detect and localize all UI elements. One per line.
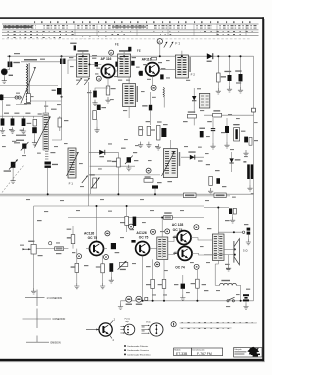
capacitor C26 + resistor	[244, 137, 248, 143]
capacitor C7 on rail	[60, 59, 62, 65]
main supply rail wire (top, y=56)	[7, 55, 254, 57]
resistor R4 (emitter)	[106, 86, 110, 95]
ground (input)	[2, 78, 7, 84]
label above choke	[221, 280, 230, 281]
trimmer resistor R2	[33, 119, 37, 126]
title box maker with logo	[234, 348, 262, 357]
ground R10	[146, 142, 151, 148]
capacitor C1 (electrolytic, input)	[8, 62, 10, 68]
label above antenna coil	[24, 59, 37, 61]
pinout leads top/bottom	[110, 320, 114, 324]
capacitor C31	[133, 217, 137, 226]
ground gang	[11, 178, 16, 184]
IF transformer F1 can (ratio detector primary)	[68, 148, 76, 178]
ground at bus left end	[120, 301, 122, 304]
ground C5	[21, 128, 26, 134]
capacitor C14	[93, 91, 97, 98]
wires T6/T7 collectors to TR2	[191, 238, 212, 240]
vertical label right of F2	[189, 57, 190, 72]
RF choke below T2	[163, 87, 164, 97]
IF transformer F3 can	[163, 149, 177, 178]
ground R5	[94, 127, 99, 133]
ground C4	[10, 127, 15, 133]
bus: audio line extension to jack	[204, 207, 229, 209]
label above R17	[164, 212, 171, 213]
vertical label right of F3	[179, 152, 180, 166]
resistor R26	[151, 279, 155, 288]
ground under C26	[243, 150, 248, 156]
svg-text:OC 75: OC 75	[139, 236, 149, 240]
wire base to can A	[89, 60, 101, 64]
svg-text:OC 74: OC 74	[175, 266, 185, 270]
electrolytic C25 (boxed)	[234, 128, 240, 141]
tuning arrow can A right winding	[84, 78, 89, 85]
speaker junction dots	[234, 248, 236, 250]
border frame: bottom border shadow	[0, 360, 265, 363]
title box model	[174, 348, 192, 356]
bus: AGC double line y=194/195.7	[0, 193, 254, 195]
trimmer arrows near F1 top	[164, 42, 167, 48]
svg-text:5 Ω: 5 Ω	[243, 249, 247, 253]
svg-text:Condensador Electrolitico: Condensador Electrolitico	[127, 353, 152, 356]
wiper to R20	[36, 248, 54, 250]
label C1	[13, 62, 20, 63]
switch position line 3 horizontal	[26, 341, 49, 343]
resistor R10b	[157, 125, 160, 140]
wire F2 top to rail	[181, 51, 183, 55]
tuning arrow F1	[67, 152, 79, 176]
label T6	[173, 237, 176, 238]
alignment table: light text row 2	[3, 30, 73, 32]
wire R5	[96, 120, 98, 127]
terminal square on right bus	[252, 108, 256, 112]
legend bullet 3	[124, 354, 126, 356]
junction dot base	[88, 63, 90, 65]
value labels (additional annotations)	[2, 55, 258, 307]
plus label C27	[243, 161, 246, 162]
alignment table: upper tick text above row1	[30, 20, 255, 23]
capacitor C23 (ceramic)	[211, 129, 215, 131]
wire can A to left	[68, 60, 76, 74]
wire emitter net	[95, 88, 108, 91]
label above can A	[78, 50, 89, 52]
capacitor C22	[239, 74, 243, 81]
capacitor C11 (collector)	[115, 62, 119, 67]
capacitor C18	[161, 128, 166, 137]
bus resistor R15	[214, 193, 226, 198]
capacitor C9 (base)	[95, 62, 98, 67]
small resistor near C15	[151, 57, 156, 60]
junction blob left of T2	[139, 72, 142, 75]
battery jack connector (top right)	[229, 208, 232, 214]
alignment table: dense text row 1	[3, 25, 36, 28]
junction dot below block	[61, 96, 63, 98]
resistor R7 (horizontal oval)	[187, 114, 196, 118]
choke wires	[215, 285, 240, 300]
label volume	[28, 241, 34, 242]
label above can B	[119, 50, 130, 52]
alignment table: column separator ticks	[75, 24, 246, 36]
label under D4	[207, 61, 212, 62]
diode D3 OA70	[181, 156, 204, 158]
svg-text:CONEXION: CONEXION	[53, 318, 66, 321]
ground C30	[109, 277, 114, 283]
ground speaker return	[228, 255, 230, 265]
border frame: bottom border line	[0, 359, 264, 361]
label R21	[67, 237, 72, 238]
note text line 2	[180, 327, 232, 329]
wire circled A stub to rail	[159, 44, 161, 56]
switch position line 3 vertical	[36, 336, 38, 343]
resistor R8 (vertical on x=118.4)	[117, 152, 119, 158]
pins inside circle 2	[156, 325, 158, 327]
base view circle 2	[150, 323, 163, 336]
wire y=115	[204, 114, 254, 116]
circled 10 test point	[96, 76, 101, 81]
wires TR1 to output bases	[168, 236, 178, 242]
label C2	[4, 170, 11, 171]
svg-text:Condensador Ceramico: Condensador Ceramico	[127, 349, 150, 352]
ground C27	[247, 185, 252, 191]
label T.7	[161, 68, 166, 69]
capacitor C8b above can B	[128, 47, 131, 52]
ground C24	[224, 142, 229, 148]
wire choke down	[163, 97, 165, 108]
pinout circle (symbol)	[99, 323, 112, 336]
capacitor C28	[216, 178, 220, 184]
fuse F (circle symbol on bus)	[126, 296, 132, 302]
svg-text:EMISION: EMISION	[51, 341, 61, 344]
wire left column down	[2, 98, 4, 117]
pins inside circle 1	[127, 326, 129, 328]
circled A (supply node)	[157, 39, 162, 44]
label near R1	[24, 103, 31, 104]
svg-text:Condensador Poliester: Condensador Poliester	[127, 345, 148, 348]
AGC pot R6 with arrow	[93, 178, 97, 188]
output transformer TR2	[212, 234, 224, 260]
wire can C bottom drop	[128, 107, 130, 118]
ground R4	[105, 97, 110, 103]
alignment table: light text row 3	[3, 33, 43, 36]
capacitor C13 right of can B	[131, 61, 134, 66]
svg-text:AF 116: AF 116	[101, 57, 112, 61]
tuning arrow across antenna coil	[21, 67, 36, 104]
wires TR2 to speaker	[224, 248, 235, 250]
ground R16	[216, 88, 221, 94]
capacitor C21	[228, 75, 232, 81]
switch position line 1 horizontal	[25, 297, 45, 299]
wire F3 top	[169, 140, 171, 149]
label R22	[71, 266, 76, 267]
wire feedback from bus x=96.5	[96, 206, 98, 242]
resistor R9	[139, 126, 143, 135]
capacitor C17	[149, 105, 152, 111]
circled 10 (T4)	[105, 231, 110, 236]
small cap at T5 base	[131, 240, 135, 243]
wire row y=116	[0, 115, 50, 117]
wire block down then left	[52, 95, 62, 141]
svg-text:Dibujado: Dibujado	[234, 349, 241, 351]
label T7	[173, 253, 176, 254]
label above R7	[188, 111, 195, 112]
capacitor C2a (black)	[1, 94, 2, 100]
ground battery	[243, 303, 248, 309]
junction dot audio rail	[233, 231, 235, 233]
meter M (circle symbol on bus)	[136, 296, 142, 302]
junction dots audio rail	[96, 205, 98, 207]
circled 10b test point	[151, 229, 156, 234]
svg-text:AC 128: AC 128	[172, 223, 184, 227]
border frame: right border shadow	[263, 19, 266, 361]
wire y=166	[90, 165, 135, 167]
svg-text:1ª CONEXION: 1ª CONEXION	[47, 296, 63, 300]
ground C14	[92, 100, 97, 106]
diode D1 (detector, down)	[192, 96, 196, 101]
label C8	[70, 43, 76, 44]
ground C21	[227, 86, 232, 92]
legend bullet 2	[124, 349, 126, 351]
wire padder to ground	[34, 133, 36, 139]
wire drop to C21	[229, 56, 231, 75]
label C25	[233, 124, 239, 125]
ground C3	[0, 127, 5, 133]
wire T2 emitter down	[151, 76, 153, 86]
transistor T4 AC126	[90, 242, 104, 256]
resistor R21 (base bias upper)	[71, 235, 75, 244]
resistor R16	[217, 73, 221, 82]
driver transformer TR1	[157, 237, 168, 259]
label C10a	[16, 140, 24, 141]
svg-text:AC126: AC126	[84, 232, 94, 236]
svg-text:F-767 FM: F-767 FM	[197, 352, 212, 356]
value labels (component annotations, small print)	[4, 53, 258, 291]
label C12 47uF	[52, 164, 58, 165]
resistor R20	[55, 247, 64, 251]
wire antenna top	[21, 61, 62, 63]
wire antenna bottom	[16, 102, 27, 105]
ground R22	[74, 283, 79, 289]
resistor R3	[58, 118, 62, 127]
circled 9 (T5)	[129, 224, 134, 229]
wire y=175	[89, 174, 160, 176]
circled 12	[155, 262, 160, 267]
wire can C top	[128, 77, 130, 84]
resistor R17 (oval on rail)	[163, 216, 172, 220]
circled 16 test point	[109, 50, 114, 55]
label C17	[142, 105, 147, 106]
transistor T7 AC128 (lower output)	[178, 246, 192, 260]
wire drop to C22	[240, 56, 242, 74]
resistor R19	[209, 176, 213, 185]
terminal block far-left	[0, 95, 3, 100]
resistor R25 (collector load)	[125, 216, 129, 225]
wire below R7	[193, 118, 195, 125]
label R11	[145, 176, 151, 177]
pin arrows circle 2	[141, 325, 149, 333]
tuning arrow can A left winding	[77, 78, 82, 85]
capacitor C24	[226, 118, 228, 126]
label 8uF	[9, 75, 13, 76]
bus: bottom supply y=300.8	[121, 300, 254, 302]
label R24	[120, 269, 126, 270]
oscillator coil L2	[43, 113, 49, 150]
ground C23	[210, 143, 215, 149]
tuning arrow F3	[162, 152, 175, 177]
microphone/pickup M1	[1, 69, 7, 75]
circled 7 (T7)	[194, 264, 199, 269]
resistor R11	[144, 179, 153, 183]
wire M1 to ground	[3, 75, 5, 78]
wire TR2 top to audio rail	[217, 208, 219, 235]
bead inductor pair	[15, 96, 18, 99]
diode D4 (rectifier on rail)	[207, 53, 213, 59]
transistor T2 AF116	[146, 63, 159, 76]
ground R23	[100, 283, 105, 289]
wire can B top to rail	[123, 51, 125, 55]
circled 4 (T6)	[194, 225, 199, 230]
svg-text:ET-33B: ET-33B	[176, 352, 188, 356]
wire gang to ground	[12, 168, 14, 178]
tone pot R24 with arrow	[119, 262, 127, 266]
filter choke L3	[220, 283, 237, 285]
IF transformer F-C (third can, lower)	[123, 84, 136, 107]
mixer coupling block (black)	[57, 88, 62, 95]
switch position line 1 vertical	[36, 290, 38, 307]
junction dots on AGC bus	[47, 193, 49, 195]
circled wiper dot	[49, 242, 52, 245]
junction dots bottom bus	[142, 300, 144, 302]
IF transformer F2 can	[175, 55, 188, 78]
wire coil top feed	[45, 101, 47, 113]
IF transformer F-B (second can)	[118, 54, 131, 77]
capacitor C30 (emitter bypass)	[109, 263, 113, 272]
svg-text:F 2: F 2	[191, 72, 196, 76]
wire T5 collector to TR1	[150, 248, 157, 250]
vertical double wire bus x=88.7/90.7	[88, 82, 90, 206]
label R16	[221, 76, 226, 77]
junction dot TR1/rail	[161, 217, 163, 219]
IF can F2 secondary (partial, near F2)	[199, 93, 209, 108]
capacitor at T2 collector	[160, 74, 163, 79]
wire can A top to rail	[82, 51, 84, 55]
bus: driver rail y=217.5	[68, 217, 204, 219]
wire emitter string	[149, 92, 151, 125]
trimmer cap C19 (black with strike)	[127, 157, 131, 162]
wire C1 down	[5, 68, 10, 70]
label D5	[235, 159, 241, 160]
pinout T: lead left with arrow	[86, 329, 99, 331]
coupling capacitor C29 (base, black)	[111, 243, 116, 249]
label R18	[213, 110, 220, 111]
label small mixer text	[16, 135, 26, 136]
speaker LS	[233, 241, 235, 263]
junction tick on right bus	[251, 193, 254, 195]
capacitor C8 at can A left	[74, 45, 76, 50]
wire x=61.5 down	[61, 56, 63, 88]
svg-text:F 1: F 1	[175, 42, 180, 46]
bus: audio line y=206	[34, 205, 204, 207]
capacitor C15 (T2 base)	[139, 71, 143, 76]
wiper arrow into volume control	[23, 248, 31, 250]
svg-text:FE: FE	[115, 43, 119, 47]
svg-text:FE: FE	[137, 49, 141, 53]
wire C20	[154, 189, 156, 195]
svg-text:AC126: AC126	[136, 231, 146, 235]
junction dots on rail	[217, 55, 219, 57]
wire drops to caps	[3, 116, 43, 118]
ground padder	[32, 140, 37, 146]
label C21	[224, 71, 231, 72]
wire R3	[59, 116, 61, 131]
circled note 1	[171, 322, 176, 327]
wire T1 collector	[115, 64, 118, 71]
switch S1 on bus	[227, 300, 229, 302]
ground C19	[126, 165, 131, 171]
ground R19	[208, 188, 213, 194]
pin arrows circle 1	[120, 326, 124, 333]
title box denomination	[192, 348, 223, 356]
resistor R22 (base bias lower)	[75, 263, 79, 272]
wire trimmer to gang	[23, 149, 25, 154]
battery B1	[243, 294, 249, 296]
diode D2 (AGC) on wire y=152.3	[89, 151, 119, 153]
bus resistor R14 (on AGC bus)	[183, 193, 196, 198]
resistor R18	[213, 113, 222, 117]
capacitor C13b	[200, 131, 204, 137]
ground battery jack	[230, 217, 235, 223]
transistor T6 AC128 (upper output)	[177, 231, 191, 245]
capacitor C16 below	[97, 105, 101, 110]
maker logo (eagle over anvil)	[247, 347, 259, 356]
wire C12 to bus	[47, 168, 49, 194]
capacitor C20	[152, 185, 158, 188]
ground volume line	[31, 288, 36, 294]
wire R20 to C29	[64, 248, 69, 250]
padder capacitor C9a (black)	[32, 127, 37, 133]
wire diode vertical	[193, 88, 195, 113]
wire TR1 primary top to rail	[161, 218, 163, 238]
junction square on bus	[145, 297, 148, 300]
transistor T1 AF116	[101, 64, 114, 77]
circled B test point	[146, 168, 151, 173]
vertical label right of can C	[137, 86, 138, 102]
wire drop to C23	[212, 118, 214, 128]
trimmer arrow right of F1	[82, 176, 88, 183]
wire C1 top to rail	[9, 56, 11, 61]
IF transformer F-A (first can)	[76, 54, 89, 77]
svg-text:OC 75: OC 75	[88, 236, 98, 240]
label under fuse	[126, 304, 132, 305]
svg-text:AF116: AF116	[142, 57, 152, 61]
wire y=85.5 left section	[0, 85, 58, 87]
legend bullet 1	[124, 345, 126, 347]
capacitor C4	[11, 118, 15, 125]
ground R10b	[156, 144, 161, 150]
ground C22	[238, 87, 243, 93]
resistor R5	[93, 111, 97, 120]
diode D5 (OA70, vertical)	[229, 158, 233, 162]
ferrite antenna coil L1	[27, 64, 28, 102]
wire C29 curve to base	[86, 248, 90, 250]
ground C32	[180, 294, 185, 300]
oscillator coil tap section	[45, 152, 48, 160]
junction dot rail x=61.5	[61, 55, 63, 57]
resistor R27	[162, 279, 166, 288]
label R6	[90, 174, 95, 175]
ferrite rod core line	[28, 63, 30, 104]
wire T4 collector up	[104, 248, 108, 250]
border frame: right border line	[262, 17, 264, 361]
